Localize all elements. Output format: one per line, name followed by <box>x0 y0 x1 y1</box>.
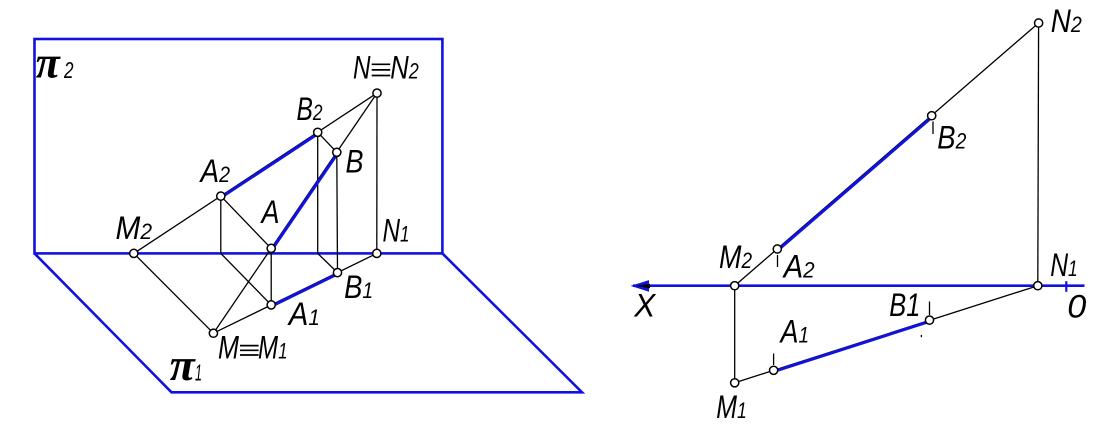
vertical connector B-B1 <box>336 152 339 272</box>
segment A2-B2 thick <box>221 134 318 198</box>
45-deg connector A2-A <box>221 196 271 248</box>
plane pi1 outline <box>35 253 583 392</box>
identity sign bar 1 of M=M1 <box>240 345 259 347</box>
point N1 (right) <box>1034 282 1042 290</box>
frontal projection line M2-N2 (right) <box>735 23 1039 286</box>
point B1 (right) <box>925 316 933 324</box>
identity sign bar 3 of M=M1 <box>240 354 259 356</box>
point A2 (left) <box>217 192 225 200</box>
segment A1-B1 thick <box>272 274 338 306</box>
svg-text:π: π <box>170 340 196 390</box>
point N1 (left) <box>373 249 381 257</box>
svg-text:B: B <box>346 144 364 180</box>
point M1 (right) <box>731 379 739 387</box>
X axis arrowhead black inner <box>636 284 650 288</box>
tick at origin O <box>1065 281 1067 292</box>
vertical connector A-A1 <box>270 248 272 305</box>
plane pi2 outline <box>35 39 443 253</box>
point A1 (right) <box>770 366 778 374</box>
X axis <box>633 284 1085 287</box>
svg-text:B1: B1 <box>889 287 920 323</box>
point M1 (left) <box>209 329 217 337</box>
segment A-B thick <box>272 153 338 249</box>
space line M1-N2 <box>213 93 377 333</box>
horizontal projection line M1-N1 (right) <box>735 286 1038 383</box>
svg-text:1: 1 <box>195 360 202 386</box>
point A1 (left) <box>267 301 275 309</box>
point B1 (left) <box>333 269 341 277</box>
horizontal projection line M1-N1 <box>213 253 376 333</box>
point A2 (right) <box>773 245 781 253</box>
point B (left) <box>333 148 341 156</box>
segment A1-B1 thick (right) <box>774 321 930 371</box>
45-deg connector fold to A1 <box>221 253 271 305</box>
tick above A1 (right) <box>773 354 775 366</box>
vertical connector N2-N1 (right) <box>1037 23 1040 286</box>
svg-text:A: A <box>260 194 280 230</box>
vertical connector below B2 <box>317 132 319 253</box>
point A (left) <box>267 244 275 252</box>
tick below B2 (right) <box>932 122 934 135</box>
point N2 (right) <box>1035 19 1043 27</box>
45-deg connector fold to B1 <box>318 253 338 272</box>
frontal projection line M2-N2 <box>134 93 377 253</box>
svg-text:π: π <box>36 38 61 88</box>
identity sign bar 3 of N=N2 <box>372 75 391 77</box>
point B2 (right) <box>928 112 936 120</box>
vertical connector N2-N1 <box>376 93 378 253</box>
svg-text:2: 2 <box>63 57 73 83</box>
tick below A2 (right) <box>777 255 779 267</box>
small dot below B1 (right) <box>920 335 922 337</box>
svg-text:0: 0 <box>1067 289 1086 325</box>
segment A2-B2 thick (right) <box>778 117 932 250</box>
point B2 (left) <box>314 128 322 136</box>
point M2 (right) <box>731 282 739 290</box>
X axis arrowhead blue <box>631 280 650 292</box>
svg-text:X: X <box>633 288 657 324</box>
svg-text:N: N <box>353 50 371 86</box>
vertical connector below A2 <box>220 196 222 253</box>
identity sign bar 1 of N=N2 <box>372 63 391 65</box>
point N2 (left) <box>373 89 381 97</box>
tick above B1 (right) <box>929 302 931 316</box>
identity sign bar 2 of N=N2 <box>372 69 391 71</box>
45-deg connector M2-M1 <box>134 253 214 333</box>
svg-text:M: M <box>218 330 239 366</box>
vertical connector M2-M1 (right) <box>734 286 736 383</box>
45-deg connector B2-B <box>318 132 337 152</box>
identity sign bar 2 of M=M1 <box>240 349 259 351</box>
point M2 (left) <box>130 249 138 257</box>
